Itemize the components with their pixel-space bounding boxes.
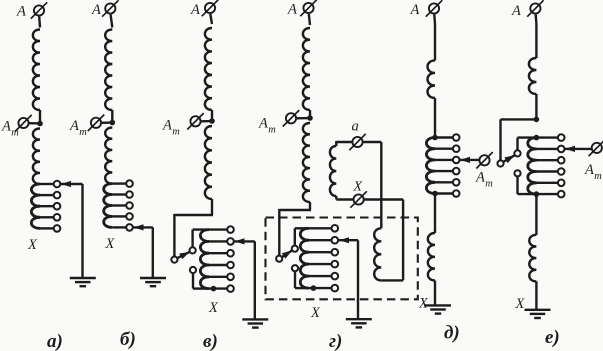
ground (circuit b): [140, 278, 166, 286]
svg-text:Х: Х: [310, 305, 321, 321]
label A (circuit a): [16, 4, 26, 20]
label A (circuit v): [190, 2, 200, 18]
terminal A (circuit v): [202, 0, 218, 24]
svg-text:д): д): [444, 323, 460, 344]
wire from terminal to winding (circuit d): [434, 24, 436, 60]
wire from terminal to winding (circuit e): [535, 24, 537, 58]
node tap winding bottom junction (circuit g): [311, 285, 317, 291]
reversing selector lower contact (circuit g): [292, 265, 298, 271]
tap selector arrow (circuit g): [339, 237, 358, 243]
node tap winding top junction (circuit d): [432, 135, 438, 141]
coarse tap winding with taps (circuit v): [200, 226, 233, 292]
node Am junction (circuit v): [209, 118, 215, 124]
node selector branch junction (circuit e): [534, 117, 540, 123]
svg-text:в): в): [203, 331, 218, 351]
caption d): [444, 323, 460, 344]
caption e): [545, 327, 560, 348]
label Am (circuit b): [69, 118, 87, 138]
svg-text:А: А: [16, 4, 26, 20]
winding W6 upper section (circuit e): [529, 58, 537, 94]
terminal A (circuit g): [300, 0, 316, 25]
svg-text:А: А: [162, 118, 172, 134]
wire to ground (circuit d): [434, 281, 436, 305]
wire selector lower contact to tap winding bottom (circuit e): [518, 176, 537, 194]
caption g): [329, 331, 342, 351]
terminal Am (circuit b): [88, 115, 113, 131]
svg-text:А: А: [287, 2, 297, 18]
label X (circuit d): [418, 296, 429, 312]
reversing selector lower contact (circuit e): [514, 170, 520, 176]
terminal A (circuit e): [527, 0, 543, 24]
svg-text:А: А: [91, 2, 101, 18]
label Am (circuit a): [1, 119, 19, 139]
reversing selector moving arrow (circuit e): [503, 155, 515, 163]
node tap winding bottom junction (circuit v): [211, 286, 217, 292]
svg-text:г): г): [329, 331, 342, 351]
tap selector arrow (circuit b): [134, 224, 153, 230]
reversing selector upper contact (circuit v): [190, 247, 196, 253]
ground (circuit e): [525, 310, 551, 318]
tapped winding section with taps (circuit e): [528, 134, 565, 197]
tap selector arrow (circuit v): [235, 238, 255, 244]
svg-text:б): б): [120, 329, 136, 350]
wire selector lower contact to tap winding bottom (circuit v): [193, 273, 209, 289]
reversing selector common contact (circuit g): [276, 256, 282, 262]
svg-text:а: а: [352, 119, 359, 135]
svg-text:m: m: [485, 178, 493, 189]
tapped winding section with taps (circuit d): [426, 134, 459, 197]
wire terminal a to excitation winding (circuit g): [362, 142, 381, 228]
wire terminal X to excitation winding (circuit g): [363, 200, 403, 281]
terminal A (circuit a): [31, 2, 47, 27]
tapped winding section with taps (circuit a): [31, 181, 60, 232]
terminal Am (circuit g): [283, 110, 310, 126]
wire from winding to reversing selector (circuit g): [279, 202, 311, 256]
winding W2 upper section (circuit b): [105, 30, 112, 123]
label A (circuit g): [287, 2, 297, 18]
svg-text:А: А: [190, 2, 200, 18]
label X below box (circuit g): [310, 305, 321, 321]
svg-text:Х: Х: [27, 237, 38, 253]
reversing selector upper contact (circuit g): [292, 246, 298, 252]
label X (circuit e): [515, 296, 526, 312]
terminal X of booster (circuit g): [350, 191, 366, 207]
svg-text:m: m: [268, 124, 276, 135]
reversing selector moving arrow (circuit g): [282, 251, 292, 259]
caption a): [47, 331, 63, 351]
label X (circuit v): [208, 300, 219, 316]
winding W2 lower section (circuit b): [105, 128, 112, 184]
terminal Am (circuit a): [15, 115, 40, 131]
terminal A (circuit b): [102, 0, 118, 27]
tap selector arrow (circuit a): [61, 181, 83, 187]
svg-text:А: А: [1, 119, 11, 135]
svg-text:m: m: [172, 126, 180, 137]
label X (circuit a): [27, 237, 38, 253]
winding W5 lower section (circuit d): [428, 233, 435, 281]
tap selector arrow with terminal Am (circuit e): [565, 140, 603, 156]
ground (circuit d): [425, 305, 451, 313]
svg-text:Х: Х: [105, 236, 116, 252]
coarse tap winding with taps (circuit g): [300, 225, 338, 291]
winding W1 upper section (circuit a): [33, 30, 40, 124]
booster series winding (circuit g): [330, 141, 354, 200]
svg-text:Х: Х: [515, 296, 526, 312]
wire from winding to reversing selector (circuit v): [174, 199, 213, 257]
winding W1 lower section (circuit a): [33, 129, 40, 185]
wire selector upper contact to tap winding top (circuit v): [193, 230, 209, 248]
terminal A (circuit d): [426, 0, 442, 24]
winding W3 lower section (circuit v): [205, 126, 212, 199]
node Am junction (circuit b): [110, 120, 116, 126]
svg-text:е): е): [545, 327, 560, 348]
wire to lower winding (circuit e): [535, 194, 537, 235]
wire selector lower contact to tap winding bottom (circuit g): [295, 271, 309, 288]
wire from selector to ground (circuit b): [152, 227, 154, 277]
tapped winding section with taps (circuit b): [104, 180, 133, 230]
winding W4 upper section (circuit g): [303, 28, 310, 118]
wire to tap section (circuit d): [434, 98, 436, 138]
reversing selector upper contact (circuit e): [514, 150, 520, 156]
node tap winding bottom junction (circuit d): [432, 191, 438, 197]
booster excitation winding (circuit g): [374, 228, 403, 280]
svg-text:m: m: [11, 127, 19, 138]
caption b): [120, 329, 136, 350]
ground (circuit g): [346, 319, 372, 327]
reversing selector common contact (circuit e): [497, 160, 503, 166]
label A (circuit e): [511, 3, 521, 19]
svg-text:m: m: [594, 171, 602, 182]
svg-text:Х: Х: [418, 296, 429, 312]
wire from selector to ground (circuit a): [81, 184, 83, 278]
reversing selector lower contact (circuit v): [190, 267, 196, 273]
reversing selector moving arrow (circuit v): [177, 252, 190, 259]
wire from selector to ground (circuit v): [254, 241, 256, 319]
node Am junction (circuit g): [307, 115, 313, 121]
wire to selector branch (circuit e): [535, 94, 537, 119]
label Am (circuit v): [162, 118, 180, 138]
dashed enclosure box of on-load tap changer (circuit g): [266, 218, 418, 300]
label Am (circuit e): [584, 162, 602, 182]
label Am (circuit d): [475, 170, 493, 190]
winding W6 lower section (circuit e): [529, 235, 536, 282]
tap selector arrow with terminal Am (circuit d): [460, 152, 493, 168]
winding W3 upper section (circuit v): [205, 28, 212, 121]
reversing selector common contact (circuit v): [171, 257, 177, 263]
ground (circuit a): [70, 278, 96, 286]
wire selector upper contact to tap winding top (circuit e): [518, 138, 537, 151]
terminal a of booster (circuit g): [349, 134, 365, 150]
wire to ground (circuit e): [535, 281, 537, 309]
svg-text:m: m: [79, 127, 87, 138]
node tap winding bottom junction (circuit e): [534, 191, 540, 197]
svg-text:Х: Х: [353, 180, 363, 195]
svg-text:А: А: [410, 2, 420, 18]
node Am junction (circuit a): [37, 121, 43, 127]
svg-text:Х: Х: [208, 300, 219, 316]
svg-text:А: А: [511, 3, 521, 19]
wire junction to reversing selector (circuit e): [501, 119, 537, 160]
winding W4 lower section (circuit g): [303, 123, 310, 202]
caption v): [203, 331, 218, 351]
label A (circuit d): [410, 2, 420, 18]
node tap winding top junction (circuit e): [534, 135, 540, 141]
label a of booster series winding (circuit g): [352, 119, 359, 135]
svg-text:А: А: [69, 118, 79, 134]
label A (circuit b): [91, 2, 101, 18]
terminal Am (circuit v): [187, 113, 212, 129]
svg-text:А: А: [475, 170, 485, 186]
wire to lower winding (circuit d): [434, 194, 436, 234]
label Am (circuit g): [258, 116, 276, 136]
svg-text:А: А: [584, 162, 594, 178]
wire selector upper contact to tap winding top (circuit g): [295, 228, 309, 245]
label X (circuit b): [105, 236, 116, 252]
wire from selector through box to ground (circuit g): [357, 240, 359, 319]
ground (circuit v): [242, 319, 268, 327]
winding W5 upper section (circuit d): [428, 60, 436, 98]
label X of booster series winding (circuit g): [353, 180, 363, 195]
svg-text:а): а): [47, 331, 63, 351]
svg-text:А: А: [258, 116, 268, 132]
